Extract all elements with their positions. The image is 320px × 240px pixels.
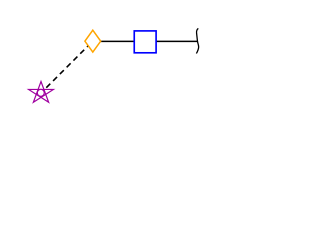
monosaccharide square — [134, 31, 156, 53]
star center circle — [37, 89, 44, 96]
wire bond square-reducing-end — [145, 40, 198, 42]
reducing end squiggle — [196, 28, 198, 53]
wire dashed bond star-diamond — [41, 41, 93, 93]
monosaccharide diamond — [85, 30, 101, 52]
wire bond diamond-square — [93, 40, 145, 42]
star pentagram — [29, 82, 54, 103]
